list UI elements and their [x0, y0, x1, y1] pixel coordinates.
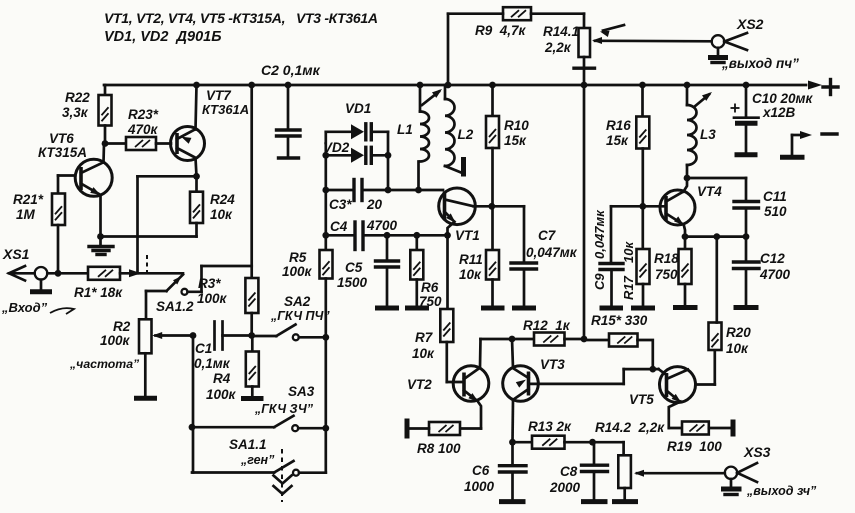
svg-text:С2 0,1мк: С2 0,1мк	[261, 62, 321, 78]
transistor VT5	[629, 367, 696, 407]
wire R10 to R11	[491, 148, 494, 250]
ground bar C7	[512, 306, 536, 311]
wire R7 to VT2 base	[447, 381, 464, 384]
capacitor C4	[326, 218, 448, 250]
node R3/R4/C1	[248, 332, 255, 339]
capacitor C9	[592, 206, 623, 305]
ground bar C10	[735, 152, 758, 157]
svg-text:2,2к: 2,2к	[544, 40, 572, 55]
capacitor C10 electrolytic	[731, 82, 814, 153]
svg-text:ХS2: ХS2	[736, 16, 764, 32]
svg-text:510: 510	[764, 204, 787, 219]
wire VT3 base to VT5 base	[529, 366, 667, 384]
wire R21 bottom to input line	[55, 225, 62, 277]
wire VD cathodes down	[385, 132, 392, 194]
wire R9 left to bus	[445, 14, 503, 89]
label Вход	[1, 300, 74, 315]
resistor R4	[206, 336, 259, 403]
inductor L2	[445, 85, 474, 173]
svg-text:VT5: VT5	[629, 392, 654, 407]
terminal bar L2	[461, 157, 466, 177]
svg-text:R13 2к: R13 2к	[528, 419, 572, 434]
connector XS1	[2, 246, 47, 281]
tuning arrow L1 L2	[422, 89, 442, 105]
ground bar C6	[499, 499, 526, 504]
resistor R16	[606, 82, 649, 207]
svg-text:0,1мк: 0,1мк	[194, 356, 231, 371]
mech link SA1.1	[274, 449, 292, 502]
svg-text:C5: C5	[345, 260, 363, 275]
svg-text:VT3: VT3	[540, 357, 565, 372]
wire VT4 base	[611, 203, 666, 210]
wire VT4 collector	[684, 178, 688, 192]
wire collector to C11	[687, 177, 746, 180]
resistor R8	[409, 422, 461, 456]
wire R1 to SA1.2	[120, 272, 183, 275]
svg-text:ХS3: ХS3	[743, 444, 771, 460]
wire bus to R3	[248, 82, 255, 278]
svg-text:20: 20	[366, 197, 383, 212]
wire R20 top	[713, 233, 720, 322]
terminal bar C2	[279, 156, 299, 159]
capacitor C3	[326, 180, 443, 213]
capacitor C7	[492, 206, 578, 305]
wire VT7 collector to input coupling	[138, 176, 197, 273]
svg-text:R3*: R3*	[198, 276, 221, 291]
svg-text:R19 100: R19 100	[667, 439, 722, 454]
wire R3 to node	[250, 313, 253, 336]
svg-text:C4: C4	[330, 219, 348, 234]
capacitor C5	[337, 232, 399, 306]
wire R2 wiper node down	[190, 332, 197, 472]
wire R14.2 bottom	[623, 488, 626, 500]
svg-text:SA2: SA2	[284, 294, 311, 309]
tuning arrow L3	[694, 92, 712, 107]
wire emitter node to R24	[101, 235, 197, 238]
mech link dashes SA1.2	[146, 255, 148, 272]
resistor R23	[126, 107, 159, 150]
svg-text:R8 100: R8 100	[417, 441, 461, 456]
capacitor C8	[549, 442, 608, 499]
title line 2: diode types	[104, 29, 221, 45]
svg-text:VD2: VD2	[323, 140, 350, 155]
label - terminal	[822, 132, 837, 135]
potentiometer R14.2	[595, 420, 665, 488]
svg-text:R12 1к: R12 1к	[523, 318, 571, 333]
svg-text:100к: 100к	[206, 387, 237, 402]
svg-text:R14.2 2,2к: R14.2 2,2к	[595, 420, 665, 435]
transistor VT6	[38, 131, 112, 196]
svg-text:10к: 10к	[621, 241, 636, 263]
resistor R21	[13, 176, 65, 226]
wire R13 to R14.2	[593, 442, 624, 455]
wire VT5 emitter to R19	[669, 402, 682, 429]
wire R14.1 wiper to XS2	[600, 39, 712, 42]
ground bar R6	[405, 306, 429, 311]
capacitor C6	[464, 442, 526, 499]
svg-text:100к: 100к	[197, 291, 228, 306]
ground symbol oscillator	[89, 237, 113, 255]
wire R9 right to R14.1	[531, 14, 584, 28]
wire VT2 emitter to R8	[460, 401, 481, 429]
ground bar C9	[600, 306, 624, 311]
resistor R22	[62, 85, 112, 126]
potentiometer R14.1	[543, 24, 602, 57]
svg-text:R22: R22	[65, 90, 90, 105]
connector XS3	[725, 444, 771, 482]
svg-text:1М: 1М	[16, 207, 36, 222]
resistor R5	[282, 250, 333, 279]
svg-text:10к: 10к	[412, 346, 435, 361]
wire VT6 collector to R22 node	[102, 144, 105, 163]
resistor R10	[486, 82, 529, 148]
resistor R3	[197, 276, 258, 313]
svg-text:4700: 4700	[366, 218, 398, 233]
label выход пч	[721, 56, 799, 71]
svg-text:C11: C11	[763, 189, 787, 204]
svg-text:3,3к: 3,3к	[62, 105, 89, 120]
svg-text:R17: R17	[621, 275, 636, 300]
wire VT7 collector to node	[193, 158, 200, 180]
svg-text:R15* 330: R15* 330	[591, 313, 648, 328]
connector XS2	[712, 16, 764, 50]
tuning arrow R14.1	[600, 25, 624, 37]
wire SA1.2 to R3 column	[188, 266, 252, 292]
ground bar C5	[375, 306, 399, 311]
svg-text:х12В: х12В	[762, 105, 796, 120]
resistor R24	[190, 176, 235, 236]
svg-text:„ГКЧ ЗЧ”: „ГКЧ ЗЧ”	[254, 402, 314, 416]
title line 1: transistor types	[104, 10, 378, 26]
svg-text:2000: 2000	[549, 480, 581, 495]
wire VT6 emitter down	[97, 195, 104, 240]
svg-text:R24: R24	[210, 192, 235, 207]
switch SA1.1	[192, 437, 326, 476]
minus output terminal	[780, 131, 812, 157]
resistor R12	[512, 318, 587, 346]
transistor VT2	[407, 366, 489, 402]
wire VT2 collector up	[480, 336, 515, 367]
svg-text:R4: R4	[213, 371, 231, 386]
resistor R13	[513, 419, 596, 449]
svg-text:VT4: VT4	[697, 184, 722, 199]
svg-text:15к: 15к	[606, 133, 629, 148]
wire VT3 emitter up	[512, 339, 513, 368]
wire +supply bus	[104, 81, 822, 90]
node SA2 on R5 column	[322, 334, 329, 341]
wire R14.1 bottom to bus	[574, 57, 595, 88]
svg-text:R18: R18	[654, 251, 679, 266]
svg-text:R23*: R23*	[128, 107, 159, 122]
svg-text:R11: R11	[459, 252, 483, 267]
ground bar R4	[241, 387, 264, 399]
label + terminal	[823, 80, 838, 95]
label выход зч	[746, 484, 817, 498]
transistor VT4	[660, 184, 722, 225]
ground bar R11	[481, 306, 505, 311]
svg-text:C9: C9	[592, 273, 607, 290]
svg-text:0,047мк: 0,047мк	[592, 209, 607, 259]
svg-text:„выход пч”: „выход пч”	[721, 56, 799, 71]
svg-text:R1* 18к: R1* 18к	[74, 285, 123, 300]
svg-text:C10 20мк: C10 20мк	[752, 91, 814, 106]
resistor R18	[654, 237, 692, 305]
wire R22 bottom to node	[102, 126, 109, 147]
svg-text:1500: 1500	[337, 275, 368, 290]
svg-text:„выход зч”: „выход зч”	[746, 484, 817, 498]
capacitor C12	[734, 237, 791, 305]
svg-text:750: 750	[655, 267, 678, 282]
svg-text:R9 4,7к: R9 4,7к	[475, 23, 527, 38]
transistor VT7	[171, 88, 250, 161]
svg-text:R6: R6	[421, 280, 439, 295]
transistor VT3	[503, 357, 566, 401]
arrow on input line	[129, 269, 141, 277]
svg-text:100к: 100к	[282, 264, 313, 279]
svg-text:15к: 15к	[504, 133, 527, 148]
wire bus to R12/R15 node	[583, 85, 586, 339]
svg-text:R16: R16	[606, 118, 631, 133]
svg-text:L1: L1	[397, 122, 413, 137]
inductor L3	[684, 82, 717, 182]
switch SA2	[252, 294, 331, 340]
wire node to R23	[105, 142, 126, 145]
svg-text:КТ361А: КТ361А	[202, 102, 249, 117]
svg-text:C7: C7	[538, 228, 557, 243]
svg-text:VT6: VT6	[49, 131, 74, 146]
resistor R17	[621, 206, 650, 305]
svg-text:VD1: VD1	[345, 101, 371, 116]
svg-text:R14.1: R14.1	[543, 24, 579, 39]
svg-text:КТ315А: КТ315А	[38, 145, 87, 160]
svg-text:SA3: SA3	[288, 384, 315, 399]
potentiometer R2	[69, 319, 193, 371]
wire VT1 collector	[474, 203, 496, 210]
terminal bar R8	[405, 419, 410, 439]
wire VT6 base	[58, 174, 75, 177]
svg-text:VT7: VT7	[206, 88, 232, 103]
svg-text:„частота”: „частота”	[69, 357, 140, 371]
switch SA3	[189, 384, 330, 432]
resistor R19	[667, 422, 731, 455]
svg-text:L2: L2	[458, 127, 474, 142]
ground XS1	[30, 280, 52, 292]
capacitor C1	[194, 322, 252, 372]
wire VT5 collector to R20	[695, 350, 714, 385]
svg-text:R21*: R21*	[13, 192, 44, 207]
svg-text:R10: R10	[504, 118, 529, 133]
transistor VT1	[439, 188, 480, 243]
svg-text:„ген”: „ген”	[240, 453, 275, 467]
diode VD1	[326, 101, 388, 140]
resistor R20	[709, 323, 752, 357]
capacitor C11	[734, 178, 787, 237]
ground bar R14.2	[612, 499, 638, 504]
svg-text:VT1: VT1	[455, 228, 480, 243]
svg-text:VT2: VT2	[407, 377, 432, 392]
wire VD left column	[322, 132, 329, 250]
wire VT7 emitter to bus	[193, 82, 200, 130]
resistor R11	[459, 250, 499, 306]
svg-text:C12: C12	[760, 251, 785, 266]
resistor R9	[475, 7, 531, 38]
inductor L1	[397, 82, 429, 194]
svg-text:VT1, VT2, VT4, VT5 -КТ315А,: VT1, VT2, VT4, VT5 -КТ315А, VT3 -КТ361А	[104, 10, 378, 26]
svg-text:C8: C8	[560, 464, 578, 479]
svg-text:„ГКЧ ПЧ”: „ГКЧ ПЧ”	[270, 309, 330, 323]
svg-text:C6: C6	[472, 463, 490, 478]
wire R5 column down	[324, 279, 327, 473]
svg-text:VD1, VD2 Д901Б: VD1, VD2 Д901Б	[104, 29, 221, 45]
resistor R7	[412, 235, 453, 382]
ground XS3	[721, 479, 742, 495]
wire R2 bottom to ground bar	[144, 353, 147, 396]
wire VT4 emitter node	[682, 225, 750, 240]
svg-text:100к: 100к	[100, 333, 131, 348]
svg-text:470к: 470к	[127, 122, 159, 137]
resistor R1	[74, 267, 123, 300]
wire VT1 emitter	[444, 222, 454, 239]
wire XS1 to R1	[47, 272, 88, 275]
diode VD2	[323, 140, 388, 163]
svg-text:R7: R7	[415, 330, 434, 345]
resistor R6	[410, 232, 442, 309]
wire VT3 collector down	[509, 400, 516, 446]
svg-text:L3: L3	[700, 127, 716, 142]
svg-text:SA1.1: SA1.1	[229, 437, 267, 452]
svg-text:R5: R5	[289, 250, 307, 265]
ground bar R2	[134, 396, 157, 401]
svg-text:R2: R2	[113, 319, 131, 334]
svg-text:R20: R20	[726, 325, 751, 340]
resistor R15	[584, 313, 653, 369]
svg-text:C3*: C3*	[329, 197, 352, 212]
wire XS3 to R14.2 wiper	[637, 472, 725, 475]
terminal bar R19	[731, 420, 736, 437]
svg-text:„Вход”: „Вход”	[1, 300, 48, 315]
svg-text:4700: 4700	[759, 267, 791, 282]
wire R23 to VT7 base	[156, 142, 171, 145]
svg-text:10к: 10к	[726, 341, 749, 356]
ground bar C12	[734, 305, 759, 310]
svg-text:10к: 10к	[459, 267, 482, 282]
ground bar R17	[631, 306, 655, 311]
capacitor C2	[261, 62, 321, 157]
svg-text:1000: 1000	[464, 479, 495, 494]
ground XS2	[708, 48, 728, 63]
ground bar C8	[581, 499, 608, 504]
svg-text:C1: C1	[195, 341, 212, 356]
svg-text:ХS1: ХS1	[2, 246, 30, 262]
svg-text:SA1.2: SA1.2	[156, 299, 194, 314]
wire SA1.2 pivot to R2	[146, 291, 167, 319]
switch SA1.2	[156, 275, 194, 315]
svg-text:10к: 10к	[210, 207, 233, 222]
ground bar R18	[673, 305, 698, 310]
svg-text:0,047мк: 0,047мк	[526, 245, 578, 260]
